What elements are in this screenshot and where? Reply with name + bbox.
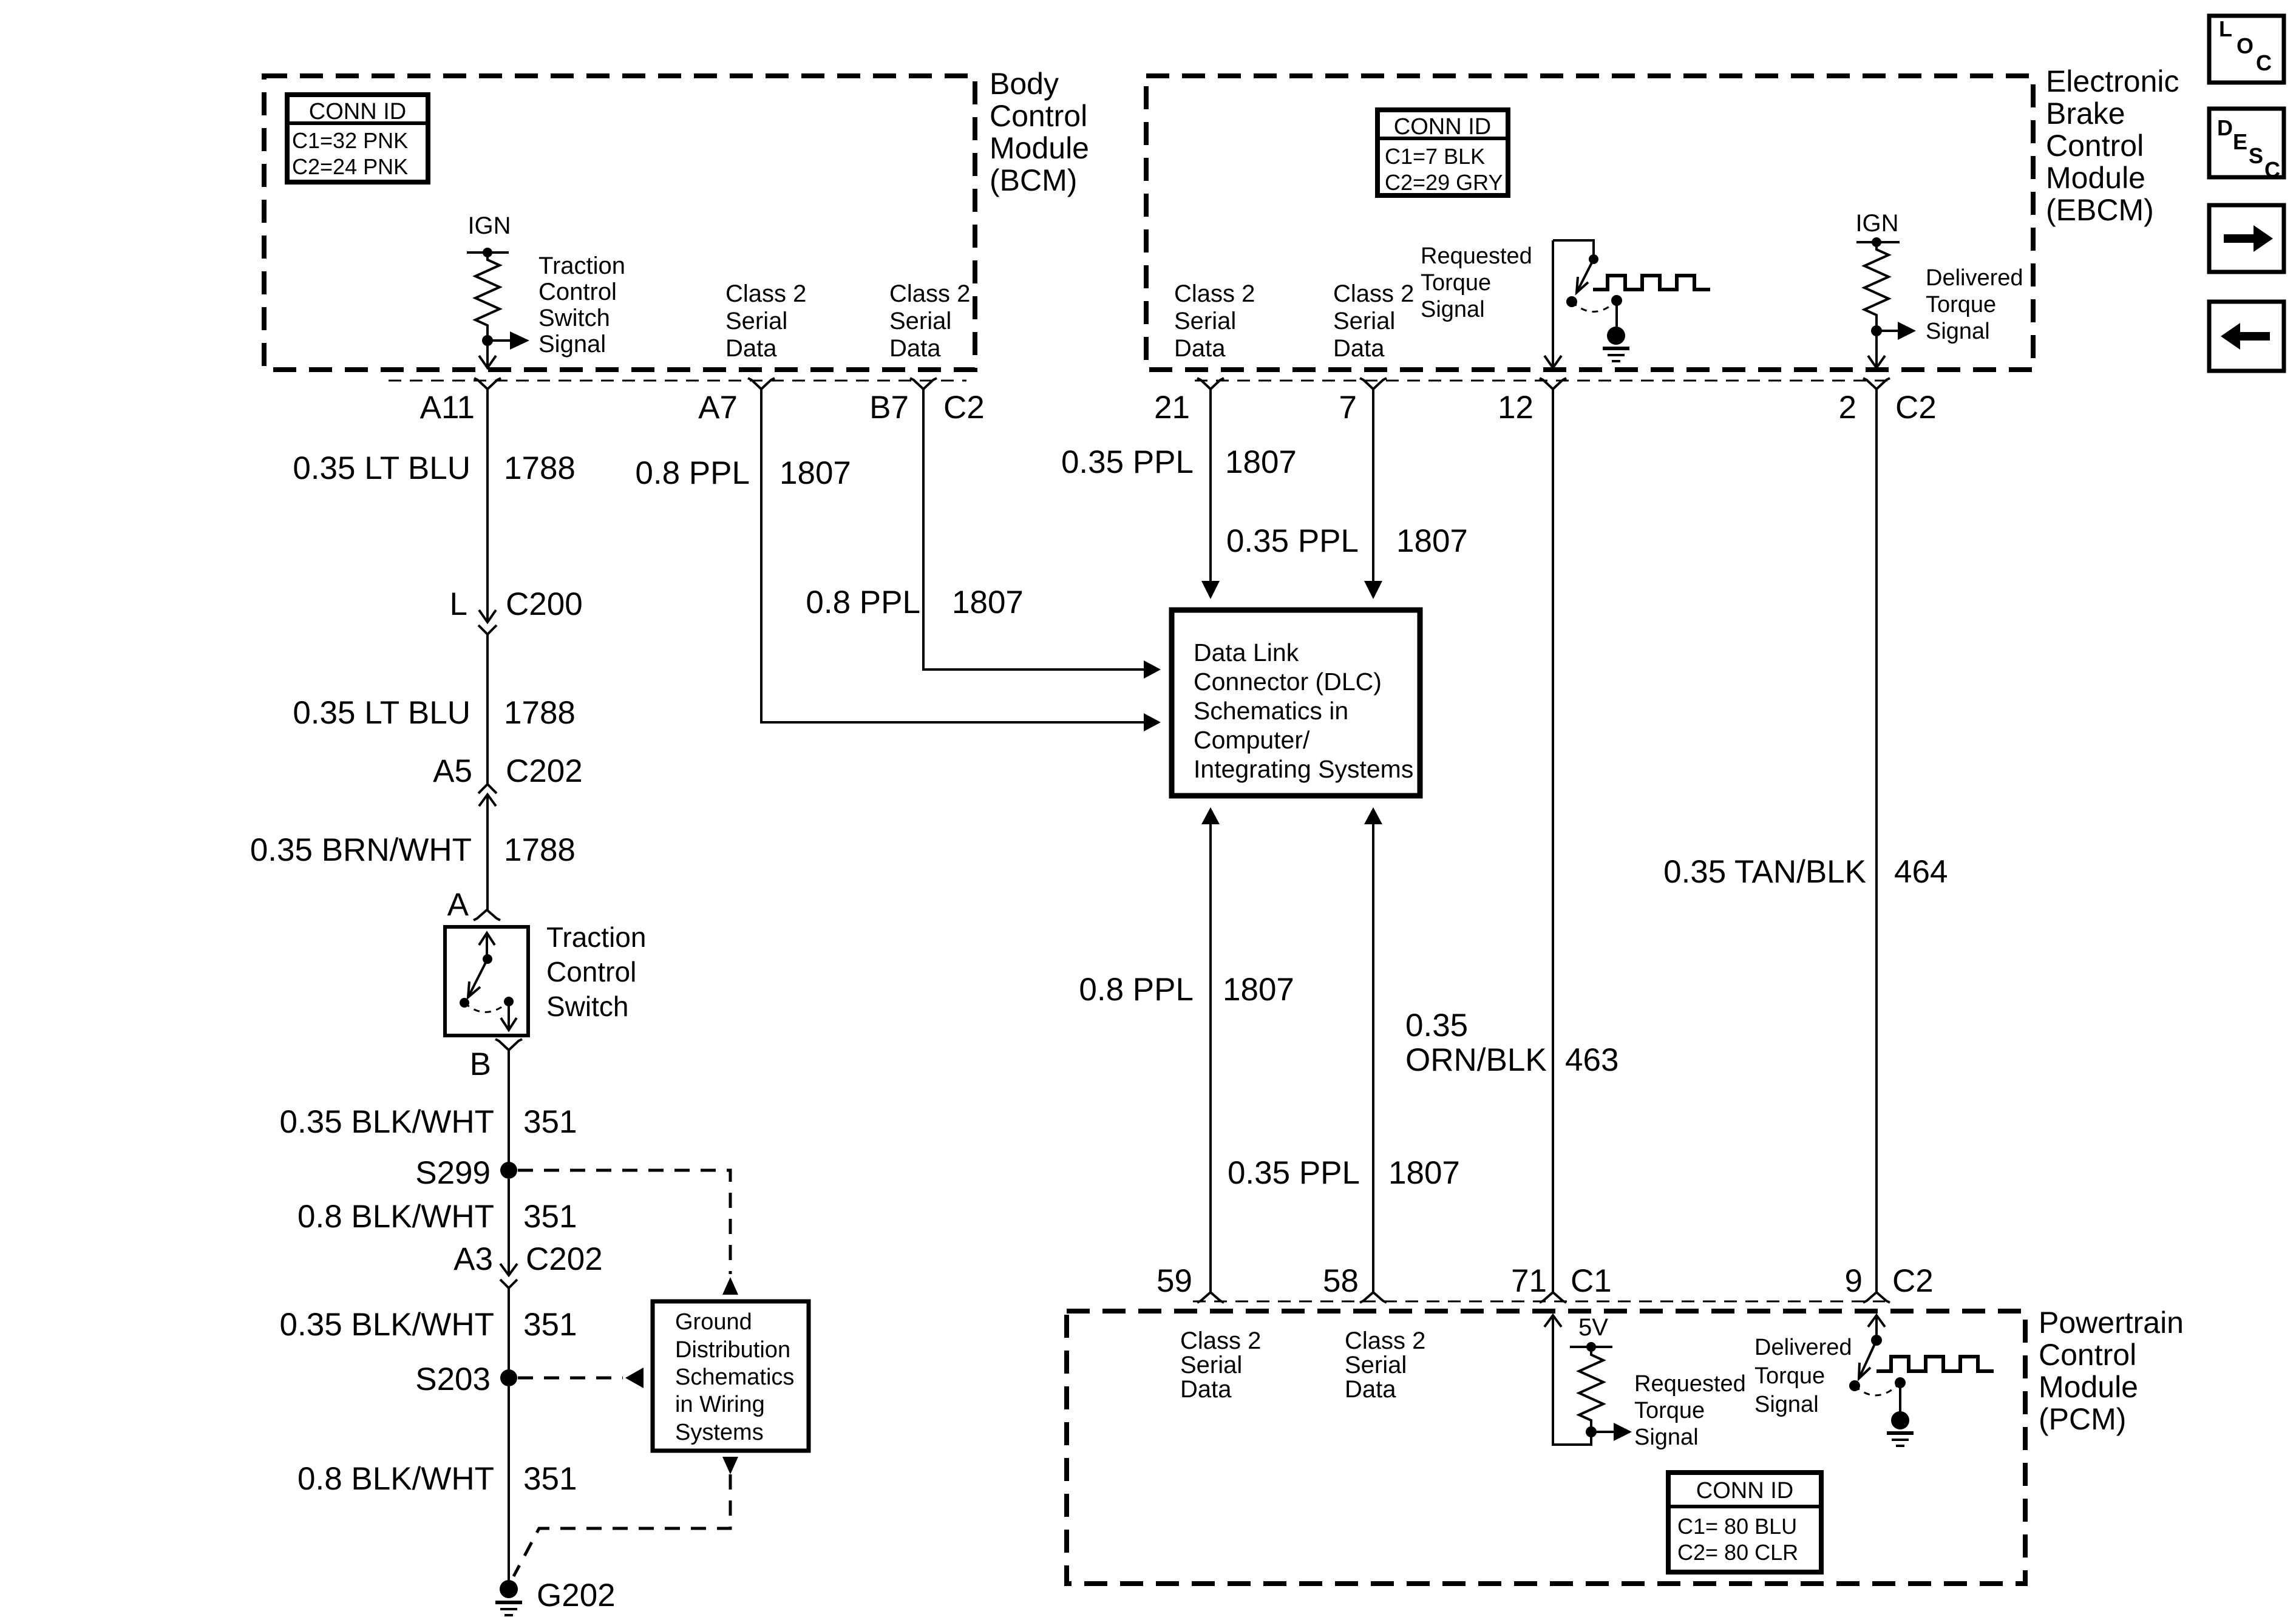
svg-text:351: 351 — [523, 1104, 577, 1140]
svg-text:1788: 1788 — [504, 695, 576, 731]
svg-text:Torque: Torque — [1926, 292, 1996, 317]
svg-text:(PCM): (PCM) — [2039, 1402, 2126, 1436]
switch S1 throw arc (dashed) — [464, 1002, 509, 1012]
svg-text:Signal: Signal — [1926, 319, 1990, 344]
svg-text:L: L — [2219, 16, 2232, 41]
svg-text:0.8 PPL: 0.8 PPL — [635, 455, 750, 491]
switch S2 contact left — [1566, 296, 1577, 307]
wire PCM pin 71 internal with up arrow — [1544, 1315, 1591, 1445]
svg-text:C1=32 PNK: C1=32 PNK — [292, 128, 408, 153]
inline connector C200 pin L — [450, 586, 583, 634]
label Class 2 Serial Data (PCM pin 58) — [1345, 1327, 1425, 1403]
square wave symbol (EBCM requested torque) — [1593, 276, 1710, 290]
svg-text:Control: Control — [538, 279, 617, 305]
svg-text:351: 351 — [523, 1307, 577, 1343]
label Delivered Torque Signal (EBCM) — [1926, 265, 2023, 344]
switch S2 blade with arrowhead — [1577, 259, 1594, 293]
switch S1 blade with arrowhead — [468, 959, 487, 997]
svg-text:0.35 BLK/WHT: 0.35 BLK/WHT — [280, 1104, 494, 1140]
svg-text:Distribution: Distribution — [675, 1337, 790, 1363]
connector pin 12 (EBCM) — [1498, 378, 1566, 425]
data link connector DLC reference box — [1172, 610, 1420, 796]
svg-text:0.8 BLK/WHT: 0.8 BLK/WHT — [297, 1461, 494, 1497]
svg-text:Control: Control — [990, 99, 1087, 133]
square wave symbol (PCM delivered torque) — [1877, 1357, 1994, 1371]
svg-text:G202: G202 — [537, 1578, 616, 1613]
svg-text:Schematics in: Schematics in — [1194, 697, 1348, 725]
svg-text:463: 463 — [1565, 1042, 1618, 1078]
svg-text:Delivered: Delivered — [1926, 265, 2023, 291]
switch S3 delivered torque (PCM) pivot contact — [1871, 1335, 1882, 1346]
label 0.35 ORN/BLK / 463 — [1405, 1008, 1618, 1078]
power feed IGN (EBCM) — [1855, 210, 1900, 247]
ground symbol (EBCM switch) — [1603, 300, 1629, 361]
svg-text:21: 21 — [1154, 390, 1190, 425]
label Requested Torque Signal (PCM) — [1634, 1371, 1746, 1450]
wire BCM IGN node to pin A11 with down arrow — [479, 341, 496, 368]
resistor R-EBCM (delivered torque signal) — [1864, 242, 1889, 331]
label 0.8 PPL / 1807 (A7 wire) — [635, 455, 851, 491]
arrow left (ground distribution reference, S203) — [625, 1368, 644, 1388]
svg-text:Serial: Serial — [1174, 308, 1236, 334]
label 0.8 BLK/WHT / 351 (S203 to G202) — [297, 1461, 577, 1497]
svg-text:in Wiring: in Wiring — [675, 1392, 765, 1417]
wire 351 segment S203 to G202 (0.8 BLK/WHT) — [508, 1386, 510, 1580]
svg-text:1788: 1788 — [504, 450, 576, 486]
connector boundary line EBCM (thin dashed) — [1195, 380, 1890, 382]
svg-text:Data: Data — [1345, 1376, 1396, 1403]
nav box arrow left — [2209, 302, 2284, 371]
svg-text:59: 59 — [1156, 1263, 1192, 1299]
inline connector C202 pin A5 — [433, 753, 583, 806]
svg-text:5V: 5V — [1578, 1314, 1608, 1341]
splice S299 — [415, 1155, 517, 1191]
node junction at EBCM resistor bottom — [1871, 325, 1882, 336]
wire 351 segment B to S299 (0.35 BLK/WHT) — [508, 1050, 510, 1162]
svg-text:0.35 PPL: 0.35 PPL — [1061, 444, 1194, 480]
module box BCM (dashed) — [264, 76, 975, 370]
svg-text:464: 464 — [1894, 854, 1948, 890]
svg-text:C2: C2 — [943, 390, 985, 425]
svg-text:Torque: Torque — [1754, 1363, 1825, 1389]
svg-text:Switch: Switch — [546, 991, 628, 1022]
label 0.35 PPL / 1807 (EBCM 7 wire) — [1226, 523, 1468, 559]
ground G202 — [495, 1578, 616, 1615]
svg-text:C202: C202 — [506, 753, 583, 789]
label Delivered Torque Signal (PCM) — [1754, 1335, 1852, 1417]
splice S203 — [415, 1361, 517, 1397]
dashed reference S299 to ground distribution box — [518, 1170, 730, 1274]
svg-text:0.35 BLK/WHT: 0.35 BLK/WHT — [280, 1307, 494, 1343]
wire EBCM pin 2 internal with down arrow — [1868, 331, 1885, 368]
svg-text:0.35 PPL: 0.35 PPL — [1228, 1155, 1360, 1191]
svg-text:A7: A7 — [698, 390, 738, 425]
svg-text:0.35: 0.35 — [1405, 1008, 1468, 1043]
switch S1 pivot contact — [483, 954, 492, 964]
svg-text:Serial: Serial — [889, 308, 951, 334]
connector pin B (traction control switch) — [470, 1039, 522, 1082]
wire 463 EBCM 12 to PCM 71 (0.35 ORN/BLK) — [1552, 389, 1554, 1292]
svg-text:1807: 1807 — [1388, 1155, 1460, 1191]
nav box LOC — [2209, 16, 2284, 83]
label 0.35 LT BLU / 1788 (segment 2) — [293, 695, 576, 731]
svg-text:Switch: Switch — [538, 305, 610, 331]
wire 1788 segment C200 to C202 (0.35 LT BLU) — [486, 634, 489, 784]
connector pin A (traction control switch) — [447, 887, 500, 923]
svg-text:ORN/BLK: ORN/BLK — [1405, 1042, 1547, 1078]
module box PCM (dashed) — [1067, 1311, 2025, 1584]
svg-text:CONN ID: CONN ID — [309, 99, 406, 124]
svg-text:C: C — [2256, 50, 2272, 75]
svg-text:0.8 BLK/WHT: 0.8 BLK/WHT — [297, 1199, 494, 1235]
svg-text:C2= 80 CLR: C2= 80 CLR — [1677, 1540, 1798, 1565]
power feed IGN (BCM) — [467, 212, 511, 257]
connector pin 21 (EBCM) — [1154, 378, 1224, 425]
svg-text:351: 351 — [523, 1461, 577, 1497]
svg-text:Requested: Requested — [1634, 1371, 1746, 1397]
wire 1807 EBCM 21 to DLC (0.35 PPL) with down arrow — [1201, 389, 1220, 599]
switch S3 contact right — [1895, 1377, 1906, 1388]
traction control switch S1 (box) — [445, 927, 528, 1036]
svg-text:Delivered: Delivered — [1754, 1335, 1852, 1360]
node junction at BCM resistor bottom — [482, 335, 493, 346]
svg-text:C2=29 GRY: C2=29 GRY — [1385, 170, 1503, 195]
svg-text:Traction: Traction — [538, 253, 625, 279]
signal arrow: Delivered Torque Signal (EBCM) — [1877, 322, 1916, 340]
svg-text:C1=7 BLK: C1=7 BLK — [1385, 144, 1485, 169]
svg-text:Powertrain: Powertrain — [2039, 1306, 2184, 1340]
svg-text:0.35 PPL: 0.35 PPL — [1226, 523, 1359, 559]
label 0.35 LT BLU / 1788 (segment 1) — [293, 450, 576, 486]
connector pin 58 (PCM C1) — [1323, 1263, 1387, 1303]
label Class 2 Serial Data (PCM pin 59) — [1180, 1327, 1261, 1403]
svg-text:D: D — [2217, 115, 2233, 140]
svg-text:B7: B7 — [869, 390, 909, 425]
svg-text:1807: 1807 — [1223, 972, 1294, 1008]
switch S1 contact right — [504, 997, 514, 1006]
connector pin 59 (PCM C1) — [1156, 1263, 1224, 1303]
svg-text:CONN ID: CONN ID — [1696, 1478, 1793, 1503]
svg-text:IGN: IGN — [1855, 210, 1898, 237]
label Traction Control Switch Signal (BCM) — [538, 253, 625, 358]
svg-text:Control: Control — [2046, 129, 2144, 163]
wire 351 segment S299 to C202 (0.8 BLK/WHT) — [500, 1179, 517, 1275]
svg-text:C200: C200 — [506, 586, 583, 622]
svg-text:Requested: Requested — [1421, 243, 1532, 269]
switch S2 contact right — [1611, 295, 1622, 306]
svg-text:Data: Data — [1174, 335, 1226, 362]
nav box DESC — [2209, 109, 2284, 182]
svg-text:C1= 80 BLU: C1= 80 BLU — [1677, 1514, 1797, 1539]
wire 1788 segment C202 to switch (0.35 BRN/WHT) — [486, 795, 489, 910]
inline connector C202 pin A3 — [453, 1241, 603, 1288]
dashed reference ground distribution box to G202 — [514, 1474, 730, 1576]
label Requested Torque Signal (EBCM) — [1421, 243, 1532, 322]
svg-text:71: 71 — [1511, 1263, 1547, 1299]
svg-text:0.8 PPL: 0.8 PPL — [1079, 972, 1194, 1008]
connector pin B7 (BCM C2) — [869, 378, 937, 425]
svg-text:C2=24 PNK: C2=24 PNK — [292, 154, 408, 179]
module label EBCM — [2046, 64, 2179, 227]
switch S2 pivot contact — [1589, 254, 1598, 264]
resistor R-BCM (traction control switch signal pull-up) — [475, 253, 500, 341]
svg-text:C202: C202 — [526, 1241, 603, 1277]
svg-text:Connector (DLC): Connector (DLC) — [1194, 668, 1382, 696]
connector pin A7 (BCM C1) — [698, 378, 775, 425]
svg-text:L: L — [450, 586, 467, 622]
switch S3 blade with arrowhead — [1859, 1340, 1877, 1378]
switch S2 throw arc (dashed) — [1572, 300, 1617, 312]
label 0.35 PPL / 1807 (EBCM 21 wire) — [1061, 444, 1297, 480]
nav box arrow right — [2209, 205, 2284, 272]
power feed 5V (PCM) — [1570, 1314, 1612, 1352]
svg-text:Serial: Serial — [1333, 308, 1395, 334]
svg-text:IGN: IGN — [467, 212, 511, 239]
svg-text:1807: 1807 — [779, 455, 851, 491]
label Class 2 Serial Data (BCM pin A7) — [725, 280, 806, 362]
wire PCM pin 9 internal with up arrow — [1868, 1315, 1885, 1340]
svg-text:Signal: Signal — [538, 331, 606, 358]
svg-text:0.35 LT BLU: 0.35 LT BLU — [293, 695, 470, 731]
svg-text:58: 58 — [1323, 1263, 1359, 1299]
label Class 2 Serial Data (EBCM pin 7) — [1333, 280, 1414, 362]
arrow down (ground distribution reference to G202) — [722, 1457, 738, 1474]
label 0.8 PPL / 1807 (PCM 59 wire) — [1079, 972, 1294, 1008]
label 0.35 TAN/BLK / 464 — [1663, 854, 1948, 890]
svg-text:0.35 BRN/WHT: 0.35 BRN/WHT — [250, 832, 472, 868]
connector boundary line PCM (thin dashed) — [1193, 1301, 1885, 1303]
svg-text:Integrating Systems: Integrating Systems — [1194, 755, 1413, 783]
wire 464 EBCM 2 to PCM 9 (0.35 TAN/BLK) — [1875, 389, 1878, 1292]
svg-text:9: 9 — [1845, 1263, 1863, 1299]
svg-text:Ground: Ground — [675, 1309, 752, 1335]
arrow up (ground distribution reference, S299) — [722, 1277, 738, 1295]
connector boundary line BCM (thin dashed) — [389, 380, 966, 382]
svg-text:A3: A3 — [453, 1241, 493, 1277]
label 0.35 BRN/WHT / 1788 (segment 3) — [250, 832, 576, 868]
svg-text:Serial: Serial — [1180, 1352, 1242, 1378]
connector pin 2 (EBCM C2) — [1839, 378, 1890, 425]
svg-text:Module: Module — [2046, 161, 2145, 195]
svg-text:351: 351 — [523, 1199, 577, 1235]
label 0.8 BLK/WHT / 351 (S299 to C202) — [297, 1199, 577, 1235]
wire 1807 EBCM 7 to DLC (0.35 PPL) with down arrow — [1364, 389, 1382, 599]
svg-text:Module: Module — [990, 131, 1089, 165]
svg-text:Class 2: Class 2 — [725, 280, 806, 307]
svg-text:Data: Data — [1333, 335, 1385, 362]
svg-text:S299: S299 — [415, 1155, 491, 1191]
connector pin A11 (BCM C1) — [420, 378, 501, 425]
svg-text:(EBCM): (EBCM) — [2046, 193, 2154, 227]
svg-text:O: O — [2237, 33, 2254, 58]
svg-text:Class 2: Class 2 — [1180, 1327, 1261, 1354]
connector id table PCM (CONN ID C1= 80 BLU / C2= 80 CLR) — [1668, 1473, 1821, 1572]
svg-text:C: C — [2264, 157, 2280, 182]
svg-text:S203: S203 — [415, 1361, 491, 1397]
svg-text:Class 2: Class 2 — [889, 280, 970, 307]
connector pin 7 (EBCM) — [1339, 378, 1387, 425]
svg-text:Serial: Serial — [725, 308, 787, 334]
signal arrow: Traction Control Switch Signal — [487, 331, 529, 350]
svg-text:Control: Control — [2039, 1338, 2136, 1372]
ground distribution schematics box — [653, 1301, 809, 1451]
switch S1 output arrow (down) — [501, 1002, 517, 1030]
label Class 2 Serial Data (BCM pin B7) — [889, 280, 970, 362]
ground symbol (PCM switch) — [1887, 1383, 1914, 1446]
svg-text:Serial: Serial — [1345, 1352, 1407, 1378]
svg-text:Computer/: Computer/ — [1194, 726, 1310, 754]
svg-text:Data: Data — [1180, 1376, 1232, 1403]
svg-text:Data Link: Data Link — [1194, 639, 1299, 666]
svg-text:Schematics: Schematics — [675, 1364, 794, 1390]
switch S3 throw arc (dashed) — [1855, 1383, 1900, 1395]
svg-text:Electronic: Electronic — [2046, 64, 2179, 98]
wire 1807 BCM B7 to DLC (0.8 PPL) — [923, 389, 1161, 679]
svg-text:A: A — [447, 887, 469, 923]
svg-text:A11: A11 — [420, 390, 475, 425]
svg-text:Body: Body — [990, 67, 1059, 101]
wire 1807 DLC to PCM 58 (0.35 PPL) with up arrow — [1364, 807, 1382, 1292]
switch S2 requested torque (EBCM) feed stub — [1553, 240, 1594, 254]
svg-text:Class 2: Class 2 — [1333, 280, 1414, 307]
svg-text:A5: A5 — [433, 753, 472, 789]
wire EBCM pin 12 internal with down arrow — [1544, 240, 1561, 368]
svg-text:Class 2: Class 2 — [1345, 1327, 1425, 1354]
svg-text:S: S — [2249, 143, 2263, 168]
svg-text:Module: Module — [2039, 1370, 2138, 1404]
node junction at PCM resistor bottom — [1586, 1426, 1597, 1437]
connector pin 9 (PCM C2) — [1845, 1263, 1890, 1303]
svg-text:7: 7 — [1339, 390, 1357, 425]
label 0.35 PPL / 1807 (PCM 58 wire) — [1228, 1155, 1460, 1191]
wire 1807 BCM A7 to DLC (0.8 PPL) — [761, 389, 1161, 731]
svg-text:Data: Data — [725, 335, 777, 362]
dashed reference S203 to ground distribution box — [518, 1377, 623, 1380]
svg-text:Signal: Signal — [1421, 297, 1485, 322]
label 0.8 PPL / 1807 (B7 wire) — [806, 585, 1024, 620]
svg-text:Control: Control — [546, 956, 636, 988]
svg-text:B: B — [470, 1046, 491, 1082]
wire 1788 segment A11 to C200 (0.35 LT BLU) — [479, 389, 496, 622]
svg-text:0.35 TAN/BLK: 0.35 TAN/BLK — [1663, 854, 1866, 890]
svg-text:1807: 1807 — [952, 585, 1024, 620]
svg-text:(BCM): (BCM) — [990, 163, 1077, 197]
resistor R-PCM (requested torque signal pull-up) — [1579, 1347, 1603, 1432]
svg-text:Data: Data — [889, 335, 941, 362]
svg-text:1788: 1788 — [504, 832, 576, 868]
svg-text:Signal: Signal — [1754, 1392, 1819, 1417]
svg-text:C2: C2 — [1892, 1263, 1934, 1299]
signal arrow: Requested Torque Signal (PCM) — [1591, 1423, 1632, 1441]
svg-text:2: 2 — [1839, 390, 1856, 425]
svg-text:Torque: Torque — [1421, 270, 1491, 296]
svg-text:Class 2: Class 2 — [1174, 280, 1255, 307]
label 0.35 BLK/WHT / 351 (C202 to S203) — [280, 1307, 577, 1343]
module box EBCM (dashed) — [1146, 76, 2033, 370]
svg-text:Signal: Signal — [1634, 1425, 1699, 1450]
svg-text:C2: C2 — [1895, 390, 1937, 425]
svg-text:0.35 LT BLU: 0.35 LT BLU — [293, 450, 470, 486]
svg-text:12: 12 — [1498, 390, 1533, 425]
switch S1 contact left — [460, 998, 469, 1008]
svg-text:1807: 1807 — [1396, 523, 1468, 559]
connector id table EBCM (CONN ID C1=7 BLK / C2=29 GRY) — [1377, 110, 1508, 195]
svg-text:0.8 PPL: 0.8 PPL — [806, 585, 920, 620]
svg-text:C1: C1 — [1571, 1263, 1612, 1299]
svg-text:CONN ID: CONN ID — [1394, 114, 1491, 140]
connector pin 71 (PCM C1) — [1511, 1263, 1566, 1303]
switch S3 contact left — [1849, 1380, 1860, 1391]
svg-text:Torque: Torque — [1634, 1398, 1705, 1423]
switch S1 input arrow (up) — [479, 933, 495, 959]
svg-text:Systems: Systems — [675, 1420, 764, 1445]
module label PCM — [2039, 1306, 2184, 1436]
svg-text:Brake: Brake — [2046, 97, 2125, 131]
label Traction Control Switch — [546, 921, 646, 1022]
label Class 2 Serial Data (EBCM pin 21) — [1174, 280, 1255, 362]
svg-text:1807: 1807 — [1225, 444, 1297, 480]
svg-text:Traction: Traction — [546, 921, 646, 953]
module label BCM — [990, 67, 1089, 197]
connector id table BCM (CONN ID C1=32 PNK / C2=24 PNK) — [287, 95, 428, 182]
svg-text:E: E — [2233, 129, 2247, 154]
wire 351 segment C202 to S203 (0.35 BLK/WHT) — [508, 1288, 510, 1369]
label 0.35 BLK/WHT / 351 (B to S299) — [280, 1104, 577, 1140]
wire 1807 DLC to PCM 59 (0.8 PPL) with up arrow — [1201, 807, 1220, 1292]
